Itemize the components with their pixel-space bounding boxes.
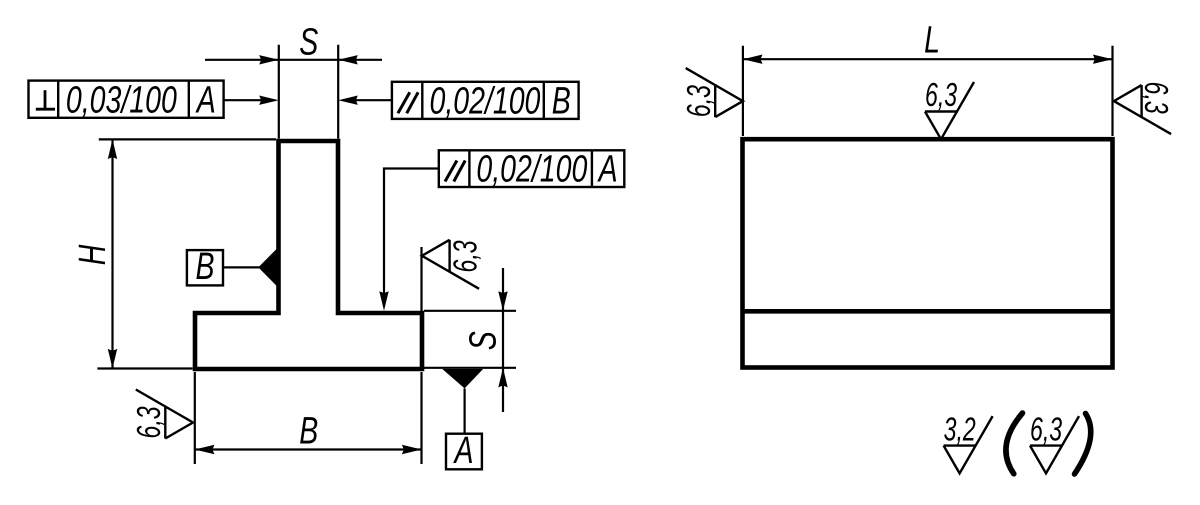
extension line stem left [278,45,280,139]
label H [72,244,114,265]
svg-text:6,3: 6,3 [131,406,168,438]
FCF1 leader [224,99,262,101]
svg-text:0,03/100: 0,03/100 [66,79,177,121]
dimension B extension line right [420,372,422,464]
dimension L line [743,58,1113,60]
roughness symbol 6,3 right of flange [422,240,479,289]
svg-text:3,2: 3,2 [944,411,976,448]
T-profile outline [195,141,422,369]
roughness symbol 6,3 right side [1114,82,1174,135]
datum A leader [464,388,466,433]
divider line [743,309,1113,314]
svg-text:S: S [299,22,319,64]
datum B triangle [258,249,277,287]
label S top [299,22,319,64]
datum B leader [223,266,260,268]
svg-text:0,02/100: 0,02/100 [430,81,541,123]
svg-text:6,3: 6,3 [681,85,718,117]
feature control frame FCF1 perpendicularity [29,79,224,121]
svg-text:B: B [195,246,214,288]
dimension H extension line bottom [97,367,192,369]
FCF3 leader [384,169,439,296]
svg-text:6,3: 6,3 [1030,411,1062,448]
rectangle outline [743,139,1113,367]
dimension S (top) line [205,59,382,61]
label L [924,20,940,62]
dimension S right line [502,268,504,412]
svg-text:L: L [924,20,940,62]
roughness symbol 6,3 top middle [925,77,974,139]
svg-text:6,3: 6,3 [1137,82,1174,114]
svg-text:6,3: 6,3 [448,240,485,272]
svg-text:A: A [597,148,618,190]
opening parenthesis [1006,413,1023,474]
dimension S arrow left [259,55,279,64]
datum B box [187,246,223,288]
extension line above flange right corner [420,247,422,311]
dimension L extension line right [1111,46,1113,136]
feature control frame FCF2 parallelism B [392,81,579,123]
general roughness note 3,2 [944,411,993,473]
label B [299,411,318,453]
extension line stem right [337,45,339,139]
roughness symbol 6,3 left side [681,68,743,117]
svg-text:6,3: 6,3 [925,77,957,114]
dimension B extension line left [194,372,196,464]
svg-text:H: H [72,244,114,265]
roughness note 6,3 in parentheses [1030,411,1079,473]
FCF2 leader [355,99,392,101]
datum A box [446,430,482,472]
svg-text:S: S [463,331,505,351]
svg-text:B: B [552,81,571,123]
svg-text:A: A [453,430,474,472]
dimension L extension line left [742,46,744,136]
svg-text:B: B [299,411,318,453]
dimension S arrow right [338,55,358,64]
label S right [463,331,505,351]
closing parenthesis [1075,414,1091,475]
dimension B line [195,448,422,450]
dimension S right extension line top [424,310,516,312]
feature control frame FCF3 parallelism A [439,148,625,190]
dimension S right extension line bottom [424,367,516,369]
roughness symbol 6,3 left-bottom [131,390,193,439]
dimension H line [111,139,113,368]
dimension H extension line top [99,138,276,140]
svg-text:0,02/100: 0,02/100 [476,148,587,190]
svg-text:A: A [195,79,216,121]
roughness 6,3 flange label [448,240,485,272]
datum A triangle [442,369,483,388]
